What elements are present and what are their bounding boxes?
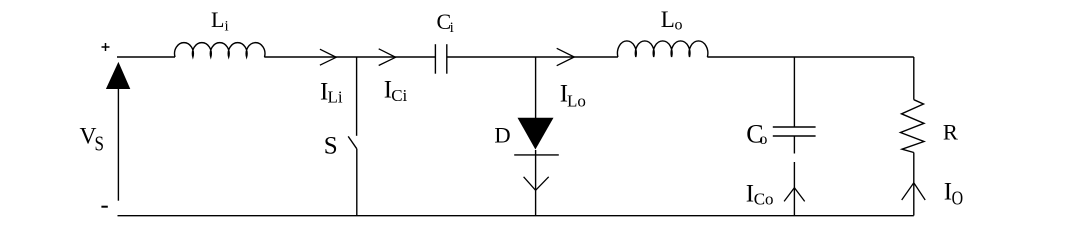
diode D triangle — [518, 118, 554, 150]
capacitor Co bottom plate — [773, 135, 816, 137]
wire top segment from Li to Ci — [264, 56, 435, 58]
plus sign of source — [102, 46, 110, 48]
minus sign of source — [101, 206, 107, 208]
current arrow I_Co chevron — [784, 188, 805, 202]
capacitor Co branch wire to bottom — [793, 162, 795, 216]
resistor R branch wire lower — [913, 153, 915, 216]
svg-text:S: S — [324, 133, 338, 160]
svg-text:i: i — [450, 20, 454, 36]
resistor R zigzag — [901, 100, 925, 153]
svg-text:o: o — [759, 131, 767, 148]
voltage source Vs arrow — [117, 88, 119, 201]
capacitor Co top plate — [773, 126, 816, 128]
current arrow I_Lo — [557, 48, 575, 65]
current arrow I_Ci — [379, 49, 396, 66]
svg-text:Li: Li — [328, 88, 343, 107]
svg-text:D: D — [494, 123, 510, 148]
svg-text:L: L — [211, 7, 224, 32]
svg-text:L: L — [661, 7, 675, 32]
svg-text:i: i — [225, 18, 229, 34]
diode D branch wire lower — [535, 150, 537, 216]
current arrow I_O chevron — [902, 183, 926, 200]
svg-text:Lo: Lo — [567, 91, 586, 110]
diode D cathode bar — [514, 154, 559, 156]
switch S branch wire upper — [356, 57, 358, 136]
svg-text:o: o — [675, 17, 683, 34]
diode branch current arrow down — [524, 177, 549, 191]
capacitor Co lower lead — [793, 136, 795, 154]
svg-text:Co: Co — [754, 189, 774, 208]
svg-text:Ci: Ci — [391, 86, 407, 105]
wire top segment from Lo to top-right corner — [707, 56, 914, 58]
switch S branch wire lower — [356, 149, 358, 216]
wire top segment from Ci to Lo — [447, 56, 618, 58]
wire bottom — [118, 215, 914, 217]
svg-text:O: O — [952, 187, 964, 209]
inductor Lo — [617, 41, 707, 57]
svg-text:S: S — [95, 131, 105, 155]
capacitor Co branch wire upper — [793, 57, 795, 127]
switch S blade — [348, 136, 357, 148]
wire top segment from source to Li — [117, 56, 175, 58]
current arrow I_Li — [320, 49, 336, 65]
capacitor Ci — [434, 44, 436, 73]
svg-text:R: R — [943, 120, 958, 145]
inductor Li — [175, 43, 265, 57]
resistor R branch wire upper — [913, 57, 915, 100]
diode D branch wire upper — [535, 57, 537, 118]
